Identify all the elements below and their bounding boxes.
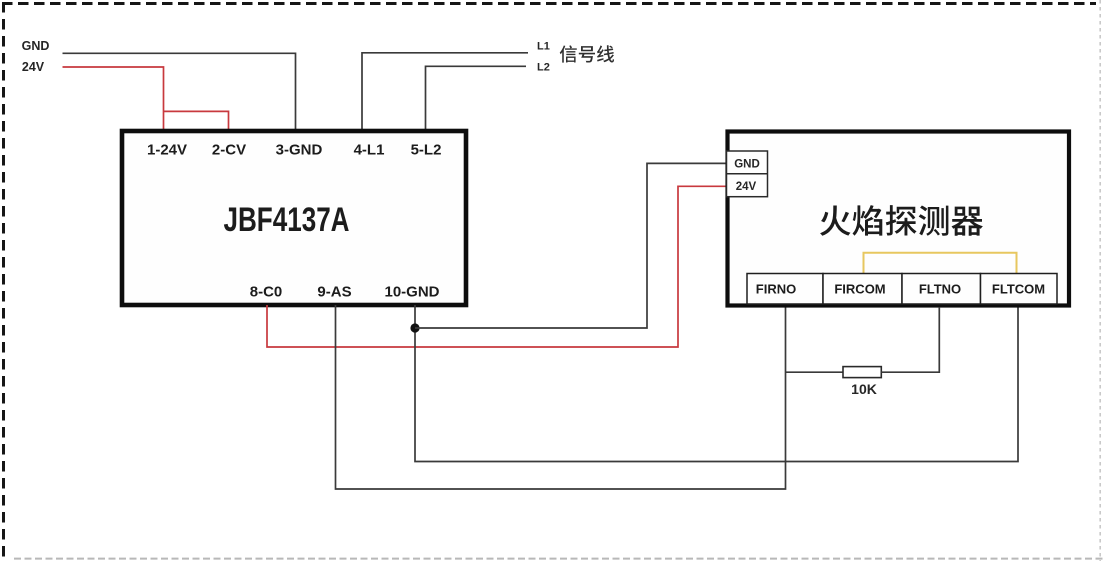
detector name 火焰探测器 <box>820 205 983 236</box>
svg-text:FLTCOM: FLTCOM <box>992 281 1045 296</box>
wire GND supply to pin 3-GND <box>63 53 296 129</box>
resistor 10K body <box>843 367 881 378</box>
junction node on 10-GND wire <box>410 323 419 332</box>
wire pin 4-L1 to L1 stub <box>362 53 528 130</box>
terminal cell FIRCOM <box>823 274 902 305</box>
wire 8-C0 (red) to detector 24V terminal <box>267 186 726 347</box>
wire 10-GND down to FLTCOM return <box>415 305 1018 462</box>
svg-text:24V: 24V <box>22 60 45 74</box>
svg-text:FIRNO: FIRNO <box>756 281 796 296</box>
wire 24V supply (red) to pin 1-24V <box>63 67 164 130</box>
svg-text:5-L2: 5-L2 <box>411 142 442 159</box>
svg-text:1-24V: 1-24V <box>147 142 187 159</box>
svg-text:3-GND: 3-GND <box>276 142 323 159</box>
label 信号线 (signal line) <box>560 45 614 62</box>
wire red branch to pin 2-CV <box>164 111 229 129</box>
jumper FIRCOM-FLTCOM (yellow) <box>864 253 1017 274</box>
svg-text:9-AS: 9-AS <box>317 283 351 300</box>
terminal block GND/24V outline <box>727 151 768 197</box>
svg-text:GND: GND <box>734 159 760 171</box>
wire pin 5-L2 to L2 stub <box>426 66 527 129</box>
svg-text:24V: 24V <box>736 181 757 193</box>
svg-text:8-C0: 8-C0 <box>250 283 283 300</box>
module JBF4137A box <box>122 131 466 305</box>
wire 9-AS down to FIRNO <box>336 305 786 489</box>
svg-text:10K: 10K <box>851 381 877 397</box>
terminal cell FLTNO <box>902 274 981 305</box>
wire resistor to FLTNO <box>881 307 939 372</box>
svg-text:4-L1: 4-L1 <box>354 142 385 159</box>
svg-text:10-GND: 10-GND <box>384 283 439 300</box>
frame top dashed border <box>2 2 1096 5</box>
page right faint dashed rule <box>1099 0 1101 561</box>
svg-text:L2: L2 <box>537 62 550 74</box>
svg-text:JBF4137A: JBF4137A <box>224 201 350 239</box>
page bottom faint dashed rule <box>14 558 1103 560</box>
svg-text:2-CV: 2-CV <box>212 142 246 159</box>
terminal cell FIRNO <box>747 274 823 305</box>
frame left dashed border <box>2 2 5 561</box>
svg-text:GND: GND <box>22 39 50 53</box>
detector 火焰探测器 box <box>728 132 1070 306</box>
svg-text:L1: L1 <box>537 41 550 53</box>
wire junction to detector GND terminal <box>415 163 726 328</box>
svg-text:FLTNO: FLTNO <box>919 281 961 296</box>
terminal cell FLTCOM <box>981 274 1058 305</box>
svg-text:FIRCOM: FIRCOM <box>834 281 885 296</box>
terminal divider <box>727 173 768 175</box>
wire FIRNO lead to resistor <box>786 371 844 373</box>
